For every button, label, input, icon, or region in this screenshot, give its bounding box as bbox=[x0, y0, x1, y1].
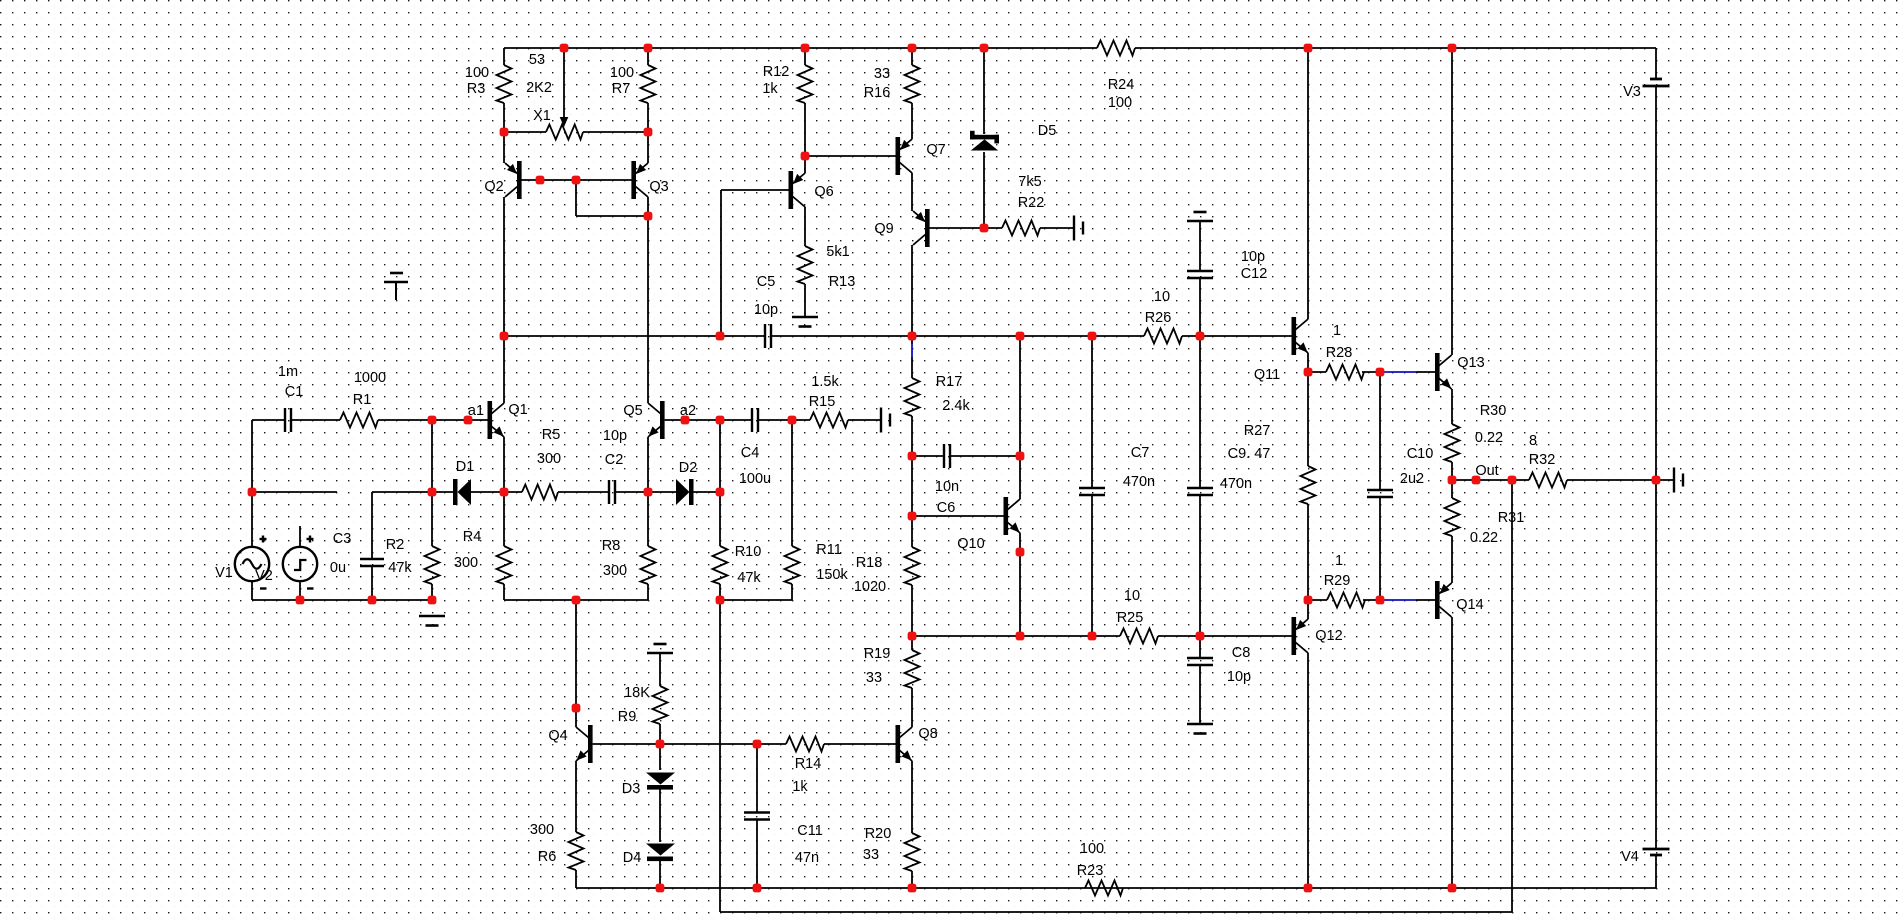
wire Q14 collector to rail bbox=[1451, 617, 1453, 888]
svg-text:R1: R1 bbox=[353, 392, 372, 408]
wire R20 to rail bbox=[911, 871, 913, 888]
wire rail to R3 bbox=[503, 48, 505, 65]
node junction (432,600) bbox=[428, 596, 437, 605]
wire R4 to R8 bottom bbox=[504, 599, 648, 601]
svg-text:10p: 10p bbox=[1227, 669, 1251, 685]
node junction (912,888) bbox=[908, 884, 917, 893]
potentiometer X1 bbox=[546, 125, 583, 140]
svg-text:R24: R24 bbox=[1108, 77, 1135, 93]
svg-text:10p: 10p bbox=[603, 428, 627, 444]
wire a2 node down bbox=[719, 420, 721, 546]
node junction (504,132) bbox=[500, 128, 509, 137]
svg-text:C8: C8 bbox=[1232, 645, 1251, 661]
wire input corner to V1 bbox=[251, 420, 253, 547]
svg-text:100: 100 bbox=[1108, 95, 1132, 111]
wire C12 to y336 bbox=[1199, 278, 1201, 336]
svg-text:1000: 1000 bbox=[354, 370, 386, 386]
node junction (660,744) bbox=[656, 740, 665, 749]
wire node to R15 bbox=[792, 419, 810, 421]
svg-text:1020: 1020 bbox=[854, 579, 886, 595]
svg-text:33: 33 bbox=[863, 847, 879, 863]
wire node to R17 upper bbox=[911, 336, 913, 344]
wire R14 to Q8 base bbox=[824, 743, 896, 745]
resistor R26 bbox=[1144, 329, 1182, 344]
source V1 bbox=[235, 547, 269, 581]
svg-text:R5: R5 bbox=[542, 427, 561, 443]
transistor Q13 bbox=[1435, 353, 1440, 391]
node junction (300,600) bbox=[296, 596, 305, 605]
svg-text:V2: V2 bbox=[255, 568, 273, 584]
wire C1 to R1 bbox=[291, 419, 340, 421]
svg-text:R17: R17 bbox=[936, 374, 963, 390]
svg-text:Q6: Q6 bbox=[814, 184, 833, 200]
wire R6 to rail bbox=[575, 870, 577, 888]
wire input node down bbox=[431, 420, 433, 546]
ground below R13 bbox=[792, 316, 818, 319]
wire Q12 emitter node to R29 bbox=[1308, 599, 1327, 601]
node junction (648,48) bbox=[644, 44, 653, 53]
resistor R9 bbox=[653, 686, 668, 724]
resistor R29 bbox=[1327, 593, 1365, 608]
transistor Q10 bbox=[1004, 497, 1009, 535]
node junction (1200,336) bbox=[1196, 332, 1205, 341]
wire blue segment R17 bbox=[911, 344, 913, 357]
resistor R3 bbox=[497, 65, 512, 103]
svg-text:R23: R23 bbox=[1077, 863, 1104, 879]
wire R8 to bottom bbox=[647, 584, 649, 600]
svg-text:Q2: Q2 bbox=[484, 179, 503, 195]
svg-text:470n: 470n bbox=[1220, 476, 1252, 492]
node junction (1092,636) bbox=[1088, 632, 1097, 641]
svg-text:0.22: 0.22 bbox=[1470, 530, 1498, 546]
svg-text:10: 10 bbox=[1124, 588, 1140, 604]
svg-text:Q1: Q1 bbox=[508, 402, 527, 418]
wire node to Q12 emitter bbox=[1307, 600, 1309, 619]
node junction (540,180) bbox=[536, 176, 545, 185]
svg-text:R9: R9 bbox=[618, 709, 637, 725]
svg-text:D4: D4 bbox=[623, 850, 642, 866]
svg-text:1m: 1m bbox=[278, 364, 298, 380]
wire Q1 emitter down bbox=[503, 437, 505, 492]
svg-text:R6: R6 bbox=[538, 849, 557, 865]
battery V4 bbox=[1643, 848, 1670, 851]
wire Q6 base down to C5 node bbox=[720, 190, 722, 336]
wire Q6 base horizontal bbox=[721, 189, 789, 191]
wire R17 to node bbox=[911, 416, 913, 456]
wire X1 node to Q3 emitter bbox=[647, 132, 649, 163]
capacitor C11 bbox=[744, 811, 770, 813]
resistor R32 bbox=[1529, 473, 1567, 488]
svg-text:7k5: 7k5 bbox=[1018, 174, 1041, 190]
node junction (564,48) bbox=[560, 44, 569, 53]
svg-text:D5: D5 bbox=[1038, 123, 1057, 139]
resistor R10 bbox=[713, 546, 728, 584]
resistor R8 bbox=[641, 546, 656, 584]
wire Q10 collector up bbox=[1019, 456, 1021, 499]
svg-text:Q7: Q7 bbox=[926, 142, 945, 158]
wire feedback rail bbox=[720, 911, 1512, 913]
svg-text:100: 100 bbox=[1080, 841, 1104, 857]
wire node to D3 bbox=[659, 744, 661, 770]
node junction (984,228) bbox=[980, 224, 989, 233]
wire R16 to Q7 bbox=[911, 103, 913, 139]
capacitor C6 bbox=[943, 444, 945, 468]
wire R12 node to Q7 base bbox=[805, 155, 896, 157]
svg-text:C3: C3 bbox=[333, 531, 352, 547]
capacitor C12 bbox=[1187, 270, 1213, 272]
capacitor C2 bbox=[608, 480, 610, 504]
svg-text:1k: 1k bbox=[792, 779, 808, 795]
wire R27 to node bbox=[1307, 504, 1309, 600]
node junction (1020,552) bbox=[1016, 548, 1025, 557]
resistor R5 bbox=[522, 485, 558, 500]
transistor Q3 bbox=[631, 161, 636, 199]
node junction (912,336) bbox=[908, 332, 917, 341]
transistor Q11 bbox=[1292, 317, 1297, 355]
diode D2 bbox=[676, 479, 690, 505]
ground floating bbox=[384, 281, 408, 284]
node junction (1020,636) bbox=[1016, 632, 1025, 641]
node junction (912,48) bbox=[908, 44, 917, 53]
zener diode D5 bbox=[970, 135, 999, 140]
ground right of R22 bbox=[1073, 216, 1075, 241]
svg-text:5k1: 5k1 bbox=[826, 244, 849, 260]
svg-text:Q12: Q12 bbox=[1315, 628, 1342, 644]
wire V2 to ground bus bbox=[299, 582, 301, 600]
svg-text:V1: V1 bbox=[215, 565, 233, 581]
wire C8 to ground bbox=[1199, 665, 1201, 724]
wire R12 to Q6 node bbox=[804, 103, 806, 156]
wire X1 wiper arrowhead bbox=[560, 117, 569, 127]
svg-text:R11: R11 bbox=[816, 542, 842, 558]
wire C10 node lower bbox=[1379, 497, 1381, 600]
wire R26 to Q11 base bbox=[1182, 335, 1292, 337]
svg-text:8: 8 bbox=[1529, 433, 1537, 449]
ground right of R15 bbox=[880, 408, 882, 433]
resistor R12 bbox=[798, 65, 813, 103]
svg-text:X1: X1 bbox=[533, 108, 551, 124]
resistor R19 bbox=[905, 650, 920, 688]
wire Q8 emitter to R20 bbox=[911, 761, 913, 833]
resistor R24 bbox=[1097, 41, 1135, 56]
svg-text:R30: R30 bbox=[1480, 403, 1507, 419]
svg-text:47n: 47n bbox=[795, 850, 819, 866]
wire y336 to C9 bbox=[1199, 336, 1201, 488]
resistor R20 bbox=[905, 833, 920, 871]
resistor R27 bbox=[1301, 466, 1316, 504]
wire y336 to C7 bbox=[1091, 336, 1093, 488]
node junction (1308,372) bbox=[1304, 368, 1313, 377]
wire R28 to C10 node bbox=[1362, 371, 1380, 373]
svg-text:100: 100 bbox=[465, 65, 489, 81]
node junction (576,708) bbox=[572, 704, 581, 713]
svg-text:R13: R13 bbox=[829, 274, 856, 290]
wire Q2 collector bus to C5 bbox=[504, 335, 765, 337]
svg-text:1: 1 bbox=[1335, 553, 1343, 569]
wire rail to R7 bbox=[647, 48, 649, 65]
transistor Q1 bbox=[488, 401, 493, 439]
svg-text:R20: R20 bbox=[865, 826, 892, 842]
node junction (648,132) bbox=[644, 128, 653, 137]
wire Q3 collector down to Q5 bbox=[647, 197, 649, 403]
wire C6 node down bbox=[911, 456, 913, 516]
wire D1 to R4 node bbox=[471, 491, 522, 493]
svg-text:C9. 47: C9. 47 bbox=[1228, 446, 1271, 462]
svg-text:R25: R25 bbox=[1117, 610, 1144, 626]
svg-text:10n: 10n bbox=[935, 479, 959, 495]
wire Q12 collector to rail bbox=[1307, 653, 1309, 888]
wire rail to D5 bbox=[983, 48, 985, 134]
wire y336 to Q10 collector node bbox=[1019, 336, 1021, 456]
svg-text:R4: R4 bbox=[463, 529, 482, 545]
wire Q6 collector to R13 bbox=[804, 207, 806, 246]
svg-text:Q3: Q3 bbox=[649, 179, 668, 195]
wire node to Q1 base bbox=[432, 419, 488, 421]
wire R1 to node bbox=[378, 419, 432, 421]
wire C6 to Q10 collector node bbox=[950, 455, 1020, 457]
wire Q3 base-collector tie horizontal bbox=[576, 215, 648, 217]
svg-text:V4: V4 bbox=[1621, 849, 1639, 865]
wire R25 to Q12 base bbox=[1158, 635, 1292, 637]
node a2 bbox=[681, 416, 690, 425]
svg-text:0u: 0u bbox=[330, 560, 346, 576]
resistor R18 bbox=[905, 547, 920, 585]
node junction (1452,888) bbox=[1448, 884, 1457, 893]
svg-text:V3: V3 bbox=[1623, 84, 1641, 100]
wire C12 ground stem bbox=[1199, 221, 1201, 271]
svg-text:R18: R18 bbox=[856, 555, 883, 571]
node junction (912,516) bbox=[908, 512, 917, 521]
wire R3 to X1 node bbox=[503, 103, 505, 132]
wire R30 to Out bbox=[1451, 462, 1453, 480]
wire C9 to R25 row bbox=[1199, 495, 1201, 636]
wire Q10 emitter down bbox=[1019, 533, 1021, 636]
wire R4 to bottom bbox=[503, 584, 505, 600]
svg-text:100: 100 bbox=[610, 65, 634, 81]
svg-text:R31: R31 bbox=[1498, 510, 1525, 526]
wire top rail left of R24 bbox=[504, 47, 1097, 49]
svg-text:1.5k: 1.5k bbox=[811, 374, 839, 390]
transistor Q4 bbox=[588, 725, 593, 763]
wire R10 to node bbox=[719, 584, 721, 600]
svg-text:Q10: Q10 bbox=[957, 536, 984, 552]
svg-text:33: 33 bbox=[866, 670, 882, 686]
node junction (372,600) bbox=[368, 596, 377, 605]
node junction (504,492) bbox=[500, 488, 509, 497]
wire D3 to D4 bbox=[659, 788, 661, 842]
node junction (252,492) bbox=[248, 488, 257, 497]
svg-text:C4: C4 bbox=[741, 445, 760, 461]
capacitor C1 bbox=[284, 408, 286, 432]
resistor R30 bbox=[1445, 424, 1460, 462]
wire Q9 base to node bbox=[929, 227, 1002, 229]
wire node to R4 bbox=[503, 492, 505, 546]
resistor R15 bbox=[810, 413, 848, 428]
transistor Q7 bbox=[896, 137, 901, 175]
svg-text:Q14: Q14 bbox=[1456, 597, 1483, 613]
transistor Q9 bbox=[925, 209, 930, 247]
transistor Q14 bbox=[1435, 581, 1440, 619]
svg-text:150k: 150k bbox=[816, 567, 848, 583]
node junction (1200,636) bbox=[1196, 632, 1205, 641]
wire ground to R9 bbox=[659, 653, 661, 686]
wire C4 to node bbox=[758, 419, 792, 421]
node junction (1452,480) bbox=[1448, 476, 1457, 485]
wire C3 to ground bus bbox=[371, 566, 373, 600]
svg-text:D3: D3 bbox=[622, 781, 641, 797]
wire Q5 base to C4 bbox=[665, 419, 752, 421]
wire C11 upper bbox=[756, 744, 758, 813]
svg-text:2u2: 2u2 bbox=[1400, 471, 1424, 487]
node junction (805,156) bbox=[801, 152, 810, 161]
node junction (1092,336) bbox=[1088, 332, 1097, 341]
resistor R11 bbox=[785, 546, 800, 584]
svg-text:R28: R28 bbox=[1326, 345, 1353, 361]
transistor Q8 bbox=[896, 725, 901, 763]
transistor Q2 bbox=[517, 161, 522, 199]
node junction (576,180) bbox=[572, 176, 581, 185]
svg-text:0.22: 0.22 bbox=[1475, 430, 1503, 446]
svg-text:R19: R19 bbox=[864, 646, 891, 662]
svg-text:D1: D1 bbox=[456, 459, 475, 475]
wire Q4 emitter to R6 bbox=[575, 761, 577, 832]
resistor R4 bbox=[497, 546, 512, 584]
node junction (1476,480) bbox=[1472, 476, 1481, 485]
diode D3 bbox=[646, 773, 675, 785]
resistor R1 bbox=[340, 413, 378, 428]
svg-text:R10: R10 bbox=[735, 544, 762, 560]
resistor R23 bbox=[1085, 881, 1123, 896]
svg-text:10: 10 bbox=[1154, 289, 1170, 305]
wire blue segment Q13 base bbox=[1383, 371, 1416, 373]
node junction (912,636) bbox=[908, 632, 917, 641]
capacitor C8 bbox=[1187, 657, 1213, 659]
wire R22 to ground bbox=[1040, 227, 1073, 229]
diode D1 bbox=[453, 479, 458, 505]
svg-text:R2: R2 bbox=[386, 537, 405, 553]
wire top rail right of R24 bbox=[1135, 47, 1656, 49]
wire node to C6 bbox=[912, 455, 944, 457]
resistor R28 bbox=[1326, 365, 1364, 380]
node junction (576,600) bbox=[572, 596, 581, 605]
svg-text:R16: R16 bbox=[864, 85, 891, 101]
source V2 bbox=[283, 547, 317, 581]
wire Out to feedback rail bbox=[1511, 480, 1513, 912]
resistor R13 bbox=[798, 246, 813, 284]
node junction (984,48) bbox=[980, 44, 989, 53]
resistor R25 bbox=[1120, 629, 1158, 644]
node junction (1308,48) bbox=[1304, 44, 1313, 53]
svg-text:C11: C11 bbox=[797, 823, 823, 839]
transistor Q5 bbox=[660, 401, 665, 439]
node junction (1020,456) bbox=[1016, 452, 1025, 461]
svg-text:R8: R8 bbox=[602, 538, 621, 554]
capacitor C7 bbox=[1079, 487, 1105, 489]
resistor R17 bbox=[905, 378, 920, 416]
svg-text:100u: 100u bbox=[739, 471, 771, 487]
battery V3 bbox=[1650, 78, 1662, 81]
wire X1 wiper bbox=[563, 48, 565, 118]
svg-text:53: 53 bbox=[529, 52, 545, 68]
ground below R2 bbox=[419, 615, 445, 618]
wire X1 to R7 node bbox=[583, 131, 648, 133]
svg-text:Q8: Q8 bbox=[918, 726, 937, 742]
wire node down to feedback rail bbox=[719, 600, 721, 912]
wire rail to Q11 collector bbox=[1307, 48, 1309, 319]
capacitor C9 bbox=[1187, 487, 1213, 489]
node junction (648,216) bbox=[644, 212, 653, 221]
svg-text:R27: R27 bbox=[1244, 423, 1271, 439]
node junction (792,420) bbox=[788, 416, 797, 425]
wire Q2 collector to y336 bus bbox=[503, 197, 505, 403]
wire R5 to C2 bbox=[558, 491, 609, 493]
svg-text:Q9: Q9 bbox=[874, 221, 893, 237]
wire V2 plus stub bbox=[299, 526, 301, 548]
wire R29 to C10 node bbox=[1363, 599, 1380, 601]
node a1 bbox=[464, 416, 473, 425]
node junction (1380,372) bbox=[1376, 368, 1385, 377]
svg-text:2.4k: 2.4k bbox=[942, 398, 970, 414]
wire rail to Q13 collector bbox=[1451, 48, 1453, 355]
svg-text:10p: 10p bbox=[1241, 249, 1265, 265]
svg-text:47k: 47k bbox=[388, 560, 412, 576]
wire input ground bus bbox=[252, 599, 432, 601]
capacitor C4 bbox=[751, 408, 753, 432]
svg-text:R22: R22 bbox=[1018, 195, 1045, 211]
svg-text:1k: 1k bbox=[762, 81, 778, 97]
wire rail corner to V3 bbox=[1655, 48, 1657, 79]
node junction (1308,888) bbox=[1304, 884, 1313, 893]
node junction (912,456) bbox=[908, 452, 917, 461]
wire Q2 base to Q3 base bbox=[521, 179, 632, 181]
svg-text:C6: C6 bbox=[937, 500, 956, 516]
node junction (648,492) bbox=[644, 488, 653, 497]
svg-text:D2: D2 bbox=[679, 460, 698, 476]
svg-text:R26: R26 bbox=[1145, 310, 1172, 326]
wire bottom rail bbox=[576, 887, 1656, 889]
diode D4 bbox=[646, 844, 675, 856]
node junction (757,744) bbox=[753, 740, 762, 749]
capacitor C3 bbox=[360, 558, 384, 560]
node junction (1512,480) bbox=[1508, 476, 1517, 485]
svg-text:C7: C7 bbox=[1131, 445, 1150, 461]
svg-text:Q11: Q11 bbox=[1254, 367, 1280, 383]
svg-text:R3: R3 bbox=[467, 81, 486, 97]
svg-text:300: 300 bbox=[530, 822, 554, 838]
transistor Q12 bbox=[1292, 617, 1297, 655]
ground above C12 bbox=[1187, 220, 1213, 223]
wire V3 to V4 bbox=[1655, 86, 1657, 849]
node junction (660,888) bbox=[656, 884, 665, 893]
wire rail to R12 bbox=[804, 48, 806, 65]
resistor R2 bbox=[425, 546, 440, 584]
svg-text:C10: C10 bbox=[1407, 446, 1434, 462]
wire Q13 emitter to R30 bbox=[1451, 389, 1453, 424]
svg-text:300: 300 bbox=[537, 451, 561, 467]
svg-text:R7: R7 bbox=[612, 81, 631, 97]
node junction (1020,336) bbox=[1016, 332, 1025, 341]
svg-text:Q5: Q5 bbox=[623, 403, 642, 419]
svg-text:C5: C5 bbox=[757, 274, 776, 290]
wire R10 node to R11 bbox=[720, 599, 792, 601]
wire V4 to bottom rail bbox=[1655, 855, 1657, 888]
node junction (1308,600) bbox=[1304, 596, 1313, 605]
svg-text:C2: C2 bbox=[605, 452, 624, 468]
wire C2 to Q5 node bbox=[615, 491, 676, 493]
wire D4 to rail bbox=[659, 860, 661, 888]
svg-text:300: 300 bbox=[454, 555, 478, 571]
transistor Q6 bbox=[789, 171, 794, 209]
